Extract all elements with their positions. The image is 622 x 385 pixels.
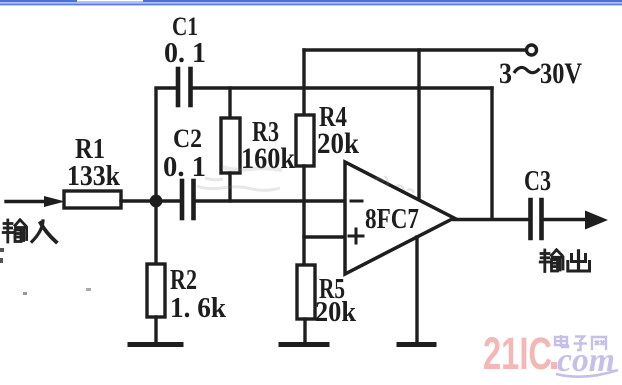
wire V+ supply rail <box>304 48 526 51</box>
wire node A to C2 <box>162 199 180 202</box>
resistor R5 <box>297 265 315 319</box>
resistor R3 <box>221 118 240 173</box>
label R4 value 20k <box>317 127 359 160</box>
label R2 value 1.6k <box>170 292 227 324</box>
resistor R2 <box>147 264 165 317</box>
ground for R2 <box>130 342 181 347</box>
wire C3 to output arrow <box>544 218 593 221</box>
wire op-amp V- pin to ground <box>415 237 418 343</box>
wire R2 top stem <box>154 207 157 264</box>
scan smudge on op-amp hypotenuse <box>374 176 414 193</box>
label supply voltage 3~30V <box>499 57 582 90</box>
wire supply rail down to R4 <box>302 50 305 115</box>
wire R3 top stub <box>228 88 231 118</box>
label 输出 (output) <box>540 250 589 272</box>
label C1 value 0.1 <box>164 37 206 69</box>
label R4 <box>319 101 347 133</box>
svg-text:1. 6k: 1. 6k <box>170 292 227 324</box>
svg-text:C2: C2 <box>173 124 202 153</box>
node A junction dot <box>150 195 163 208</box>
svg-text:3: 3 <box>499 57 512 90</box>
supply terminal circle <box>527 45 537 55</box>
label R5 value 20k <box>315 296 357 328</box>
scan specks left edge <box>0 248 91 295</box>
svg-text:C3: C3 <box>524 165 551 197</box>
browser toolbar edge strip <box>0 0 622 5</box>
scan smudge under 160k <box>197 167 282 190</box>
label C2 <box>173 124 202 153</box>
wire op-amp output <box>454 218 528 221</box>
watermark 电子网 <box>555 335 606 350</box>
svg-text:20k: 20k <box>315 296 357 328</box>
wire input line <box>6 200 50 203</box>
watermark dot <box>551 362 557 369</box>
op-amp non-inverting input plus sign <box>349 229 363 243</box>
wire feedback vertical to output node <box>490 88 493 219</box>
capacitor C1 <box>178 69 191 105</box>
wire R1 to node A <box>121 199 156 202</box>
svg-text:20k: 20k <box>317 127 359 160</box>
wire to op-amp non-inverting input <box>304 235 345 238</box>
label C2 value 0.1 <box>163 151 206 183</box>
input arrowhead <box>44 196 65 207</box>
wire C2 to op-amp inverting input <box>196 199 346 202</box>
svg-text:8FC7: 8FC7 <box>365 203 419 235</box>
ground for R5 <box>281 342 327 347</box>
capacitor C3 <box>531 200 542 238</box>
svg-text:21IC: 21IC <box>483 328 552 379</box>
label 输入 (input) <box>3 220 56 242</box>
label R1 <box>75 133 105 165</box>
resistor R1 <box>64 191 121 208</box>
label 133k <box>67 160 121 192</box>
wire R3 bottom stub <box>228 173 231 201</box>
capacitor C2 <box>182 181 194 218</box>
label R5 <box>319 273 345 305</box>
wire R5 to ground <box>303 319 306 343</box>
wire op-amp V+ power pin <box>417 50 420 200</box>
label C1 <box>172 12 198 41</box>
label R3 <box>252 116 279 148</box>
wire node A up to C1 <box>156 88 176 201</box>
label C3 <box>524 165 551 197</box>
label R3 value 160k <box>241 142 295 175</box>
wire C1 to feedback corner <box>193 86 493 89</box>
wire R2 to ground <box>154 317 157 343</box>
svg-text:30V: 30V <box>540 57 582 90</box>
watermark 21IC <box>483 328 552 379</box>
op-amp inverting input minus sign <box>351 200 362 203</box>
wire R4 bottom to R5 top <box>302 166 305 265</box>
label 8FC7 op-amp part number <box>365 203 419 235</box>
output arrowhead <box>585 211 608 230</box>
resistor R4 <box>296 115 314 166</box>
svg-text:0. 1: 0. 1 <box>164 37 206 69</box>
op-amp U1 triangle <box>345 162 454 274</box>
svg-text:0. 1: 0. 1 <box>163 151 206 183</box>
label R2 <box>170 264 197 296</box>
svg-text:133k: 133k <box>67 160 121 192</box>
ground for op-amp <box>399 342 434 347</box>
watermark com script <box>556 342 618 379</box>
